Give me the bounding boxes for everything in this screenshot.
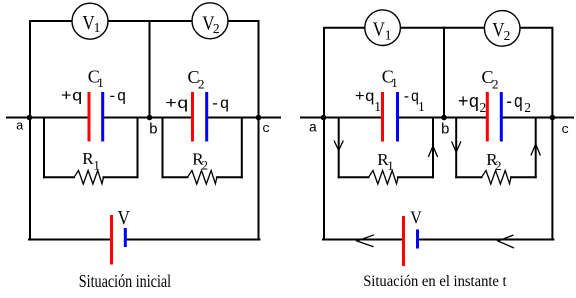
svg-text:R: R [82, 149, 94, 168]
svg-text:b: b [441, 122, 450, 139]
svg-text:2: 2 [213, 21, 220, 36]
svg-text:+q: +q [165, 95, 189, 113]
svg-text:2: 2 [495, 158, 502, 173]
svg-text:-q: -q [108, 88, 127, 106]
svg-text:-q: -q [505, 93, 524, 113]
svg-text:V: V [410, 208, 422, 228]
svg-text:b: b [149, 122, 158, 139]
svg-text:c: c [561, 122, 569, 137]
svg-text:1: 1 [391, 75, 398, 90]
svg-text:c: c [262, 121, 270, 136]
svg-text:1: 1 [94, 20, 101, 35]
svg-text:2: 2 [492, 77, 499, 92]
svg-text:1: 1 [418, 99, 425, 114]
svg-text:-q: -q [402, 88, 419, 106]
svg-text:2: 2 [480, 100, 487, 115]
svg-text:Situación inicial: Situación inicial [79, 271, 171, 291]
svg-text:2: 2 [202, 158, 209, 173]
svg-text:+q: +q [355, 88, 375, 106]
svg-text:1: 1 [387, 158, 394, 173]
svg-text:2: 2 [524, 100, 531, 115]
svg-text:a: a [309, 120, 317, 136]
svg-text:2: 2 [198, 77, 205, 92]
svg-text:1: 1 [93, 158, 100, 173]
svg-text:+q: +q [61, 88, 83, 106]
svg-text:V: V [118, 207, 131, 229]
svg-text:1: 1 [374, 99, 381, 114]
svg-text:a: a [16, 119, 24, 134]
svg-text:V: V [373, 19, 386, 41]
svg-text:+q: +q [458, 93, 480, 113]
svg-text:-q: -q [210, 95, 229, 113]
svg-text:2: 2 [504, 28, 511, 43]
svg-text:1: 1 [97, 75, 104, 90]
svg-text:Situación en el instante t: Situación en el instante t [363, 273, 507, 290]
svg-text:1: 1 [385, 28, 392, 43]
